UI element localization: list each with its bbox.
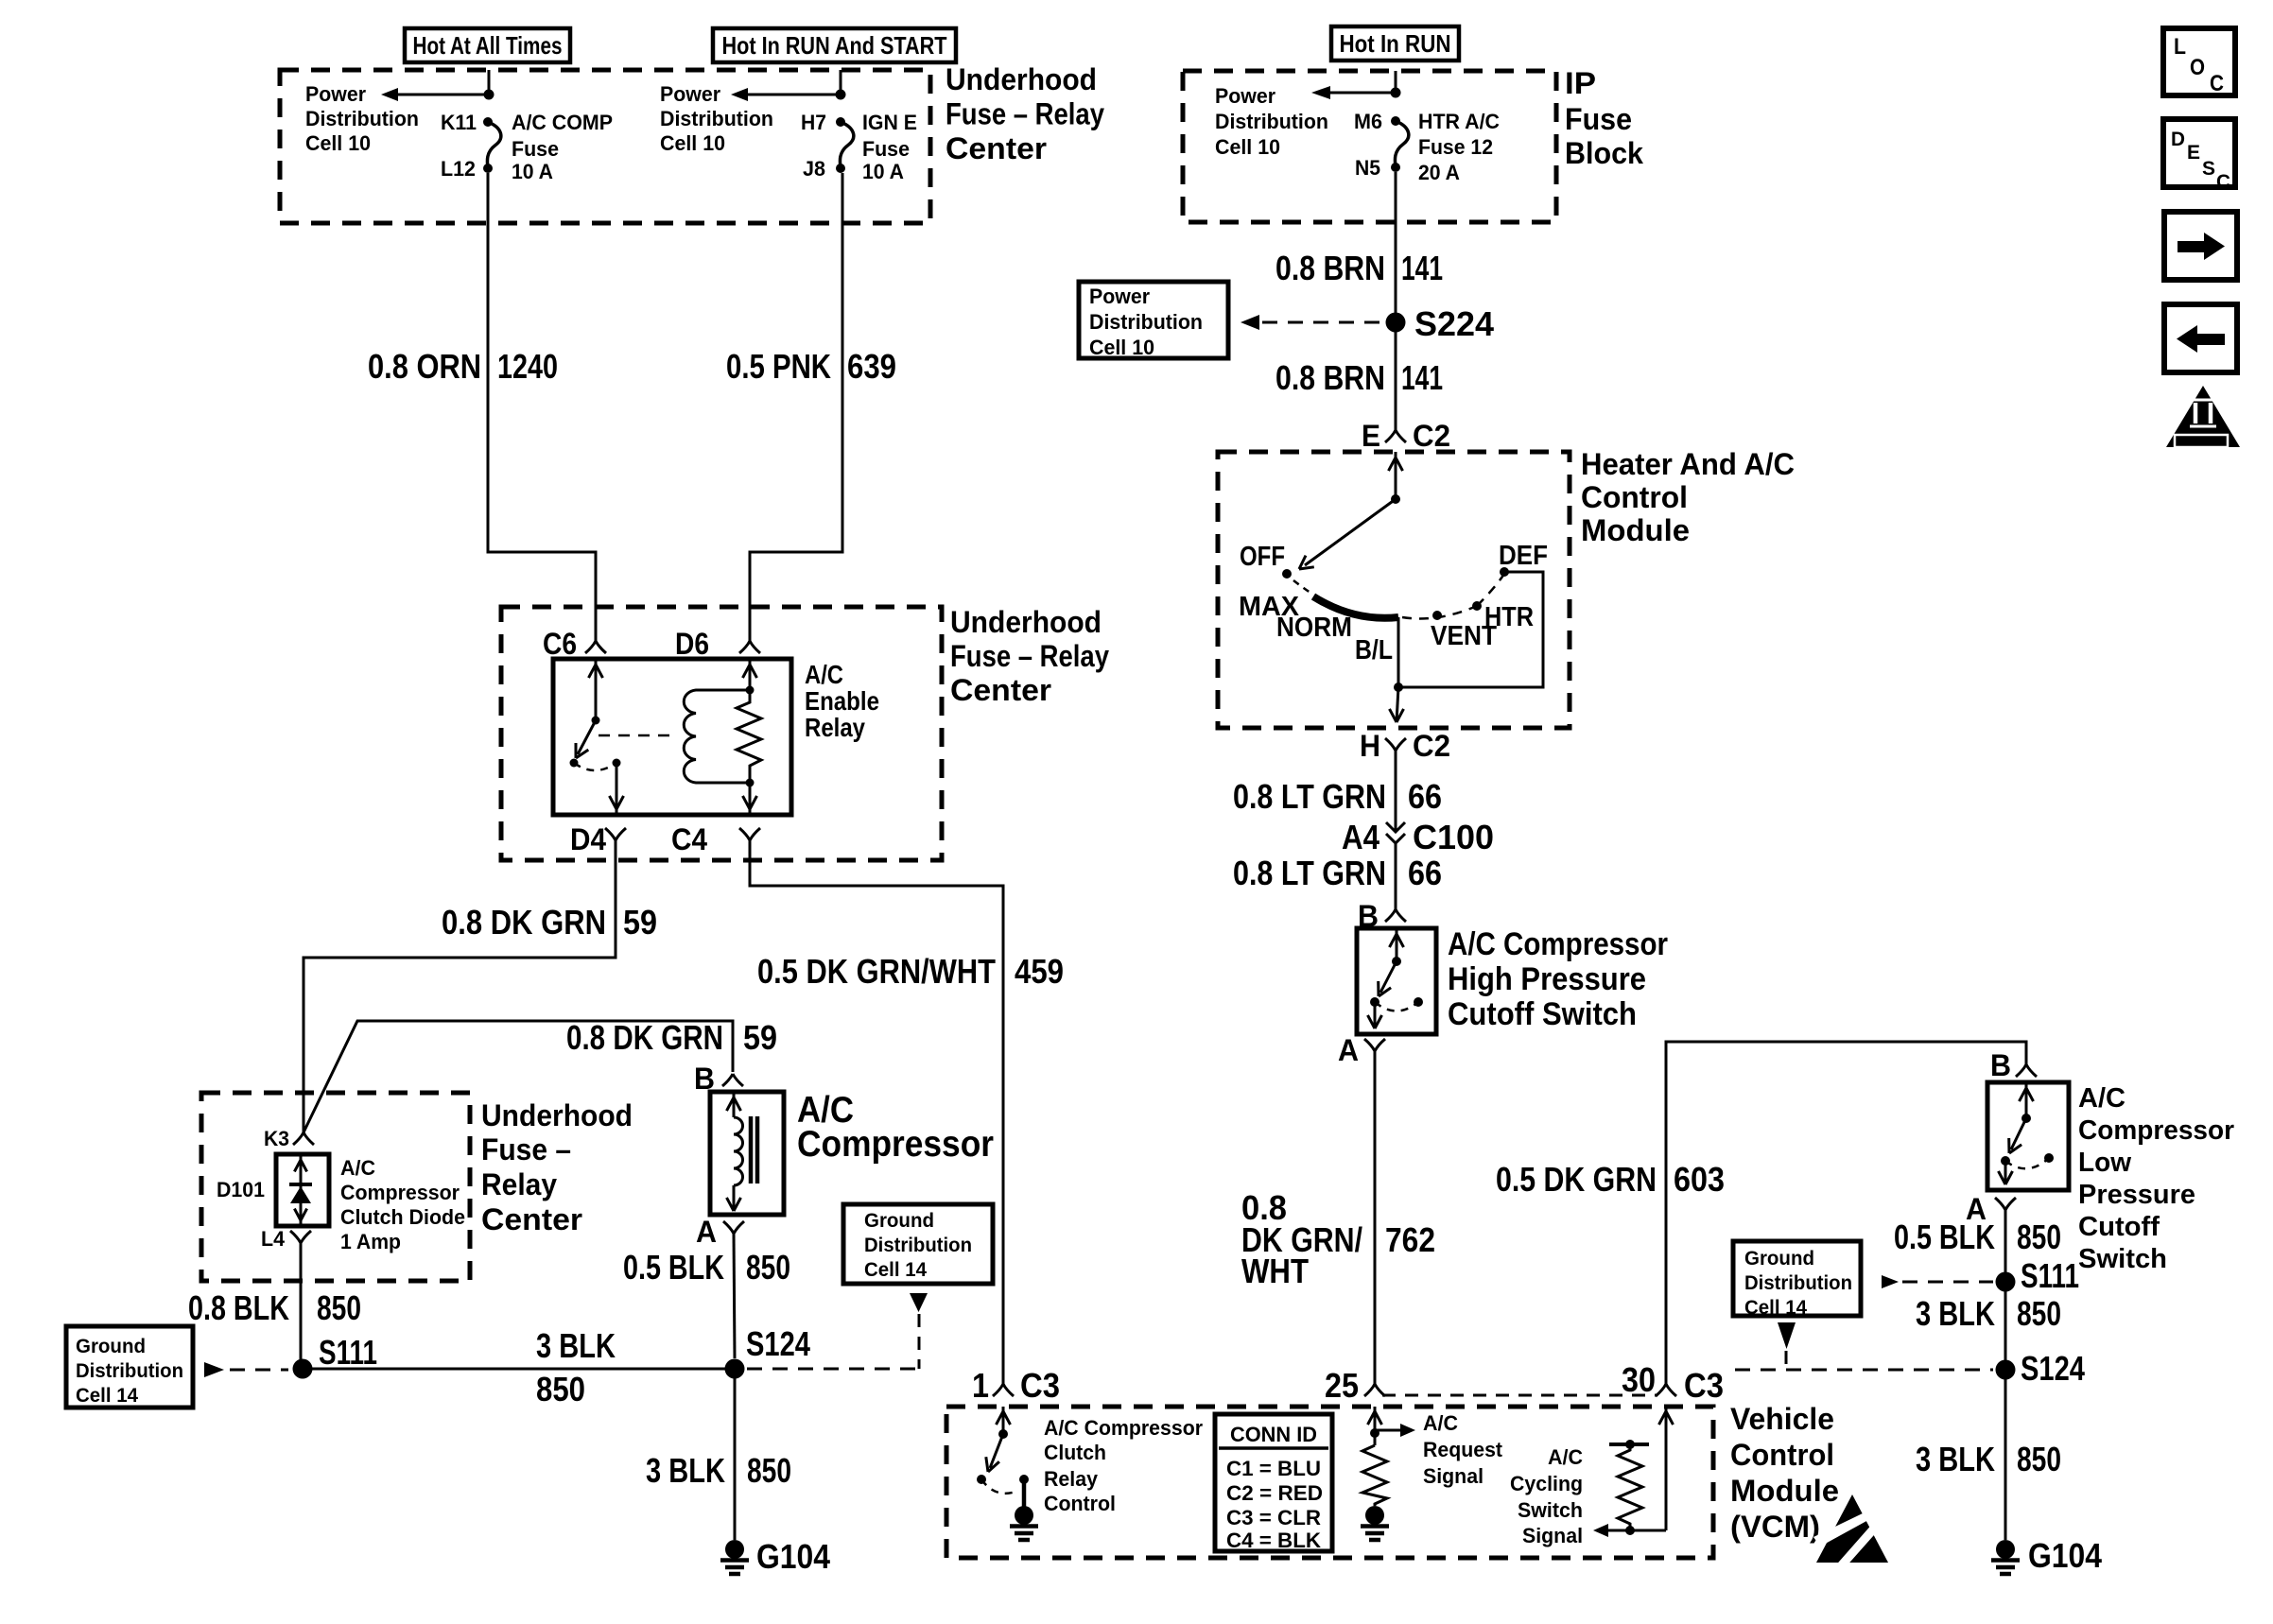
- wire label 0.5 PNK 639: [726, 347, 896, 386]
- connector pin L4: [290, 1231, 301, 1243]
- svg-text:C: C: [2210, 71, 2224, 96]
- svg-text:IGN E: IGN E: [862, 111, 917, 134]
- sidebar button back arrow: [2164, 304, 2237, 372]
- CONN ID table: [1215, 1414, 1332, 1551]
- wire 0.5 DK GRN 603 from VCM pin 30 to LP switch B: [1666, 1042, 2026, 1384]
- Underhood Fuse-Relay Center dashed box 1: [280, 70, 930, 223]
- IP Fuse Block dashed box: [1183, 71, 1556, 222]
- svg-text:Distribution: Distribution: [305, 107, 419, 130]
- svg-text:850: 850: [746, 1248, 790, 1287]
- wire 3 BLK 850 from S111 to S124: [303, 1368, 735, 1371]
- ground distribution dashed link to S124 right: [1735, 1351, 1993, 1370]
- svg-text:IP: IP: [1565, 66, 1596, 100]
- wire label 0.8 DK GRN 59 (upper): [442, 903, 657, 942]
- power distribution box solid (S224): [1079, 282, 1228, 358]
- diode D101 symbol: [289, 1154, 312, 1226]
- wire 0.5 BLK 850 LP switch A to S111 right: [2004, 1210, 2007, 1540]
- splice S124 right: [1996, 1360, 2016, 1380]
- svg-text:Compressor: Compressor: [2078, 1115, 2234, 1146]
- wire label 0.5 DK GRN 603: [1496, 1160, 1725, 1199]
- compressor clutch coil and symbol: [727, 1092, 758, 1211]
- svg-text:Fuse – Relay: Fuse – Relay: [946, 97, 1104, 131]
- svg-text:Cutoff Switch: Cutoff Switch: [1448, 996, 1637, 1032]
- VCM pin link dashed 25-30: [1382, 1394, 1657, 1397]
- svg-text:141: 141: [1401, 249, 1443, 287]
- svg-text:Distribution: Distribution: [660, 107, 773, 130]
- wire 0.8 BLK 850 from L4 to S111: [300, 1243, 303, 1361]
- svg-text:Hot In RUN: Hot In RUN: [1340, 29, 1451, 58]
- wire label 3 BLK 850 (to G104): [646, 1451, 791, 1490]
- svg-text:C4 = BLK: C4 = BLK: [1226, 1529, 1321, 1552]
- connector pin C6: [585, 641, 596, 653]
- ground distribution arrow down (right): [1778, 1322, 1796, 1349]
- svg-text:850: 850: [2017, 1440, 2061, 1478]
- svg-text:Pressure: Pressure: [2078, 1180, 2195, 1210]
- Underhood Fuse-Relay Center dashed box 3: [201, 1093, 470, 1281]
- label A/C Compressor Low Pressure Cutoff Switch: [2078, 1083, 2234, 1274]
- node junction on A/C COMP fuse feed: [484, 90, 495, 100]
- svg-text:Center: Center: [481, 1202, 582, 1236]
- svg-text:S224: S224: [1414, 304, 1494, 343]
- svg-text:59: 59: [623, 903, 657, 942]
- mode switch arm to OFF: [1299, 499, 1396, 569]
- svg-text:A: A: [696, 1215, 717, 1249]
- svg-text:Underhood: Underhood: [950, 605, 1102, 639]
- svg-text:Underhood: Underhood: [481, 1098, 633, 1132]
- connector pin D4: [605, 828, 616, 840]
- svg-text:Compressor: Compressor: [340, 1181, 460, 1204]
- power feed arrow to Power Distribution (right): [731, 88, 841, 101]
- svg-text:Fuse – Relay: Fuse – Relay: [950, 639, 1109, 673]
- svg-text:Switch: Switch: [2078, 1244, 2167, 1274]
- svg-text:Fuse: Fuse: [862, 137, 910, 161]
- svg-text:Distribution: Distribution: [864, 1235, 972, 1256]
- svg-text:Cell 14: Cell 14: [76, 1385, 138, 1407]
- wire 0.8 DK GRN 59 from D4 to diode K3: [304, 840, 616, 1132]
- power feed arrow to Power Distribution (IP): [1311, 86, 1396, 99]
- ground G104 (left): [725, 1540, 744, 1559]
- ground distribution dashed link to S124: [747, 1314, 919, 1369]
- svg-text:C2: C2: [1413, 419, 1450, 453]
- svg-text:A/C: A/C: [340, 1156, 375, 1180]
- svg-text:Cell 14: Cell 14: [864, 1259, 927, 1281]
- node mode position OFF: [1282, 569, 1292, 579]
- svg-text:C3: C3: [1020, 1366, 1060, 1405]
- svg-text:Relay: Relay: [1044, 1467, 1099, 1491]
- svg-text:Underhood: Underhood: [946, 62, 1097, 96]
- svg-text:3 BLK: 3 BLK: [646, 1451, 725, 1490]
- ground distribution box right Cell 14: [1733, 1241, 1861, 1316]
- svg-text:Signal: Signal: [1423, 1464, 1484, 1488]
- power label box Hot In RUN: [1331, 26, 1459, 60]
- wire label 0.8 ORN 1240: [368, 347, 558, 386]
- svg-text:0.8 DK GRN: 0.8 DK GRN: [566, 1018, 723, 1057]
- ground distribution dashed arrow to S111 right: [1882, 1275, 1993, 1288]
- svg-text:C3 = CLR: C3 = CLR: [1226, 1506, 1321, 1529]
- svg-text:Signal: Signal: [1522, 1524, 1583, 1547]
- svg-text:0.5 DK GRN/WHT: 0.5 DK GRN/WHT: [757, 952, 996, 991]
- svg-text:Control: Control: [1730, 1438, 1834, 1472]
- svg-text:M6: M6: [1354, 110, 1382, 133]
- svg-text:1240: 1240: [497, 347, 558, 386]
- svg-text:3 BLK: 3 BLK: [1916, 1294, 1995, 1333]
- label Power Distribution Cell 10 (IP): [1215, 84, 1328, 159]
- svg-text:S111: S111: [319, 1333, 377, 1372]
- svg-text:Request: Request: [1423, 1438, 1503, 1461]
- connector pin 1 C3: [993, 1384, 1003, 1396]
- svg-text:A/C Compressor: A/C Compressor: [1044, 1416, 1203, 1440]
- label A/C COMP Fuse 10 A: [512, 111, 613, 183]
- svg-text:1 Amp: 1 Amp: [340, 1230, 401, 1253]
- wire fuse3 feed stub: [1395, 71, 1397, 88]
- node mode position HTR: [1472, 601, 1482, 611]
- svg-text:OFF: OFF: [1240, 542, 1285, 572]
- wire 0.8 DK GRN/WHT 762 from HP switch A to VCM pin 25: [1374, 1051, 1377, 1384]
- HP switch internals: [1368, 928, 1424, 1028]
- svg-text:0.8 BRN: 0.8 BRN: [1275, 249, 1385, 287]
- fuse A/C COMP Fuse 10A (K11-L12): [483, 117, 501, 173]
- power feed arrow to Power Distribution (left): [381, 88, 489, 101]
- relay coil winding: [684, 690, 750, 783]
- diode D101 A/C Compressor Clutch Diode box: [276, 1154, 329, 1226]
- svg-text:Relay: Relay: [481, 1167, 557, 1201]
- relay K1 A/C Enable Relay box: [553, 659, 791, 815]
- svg-text:C6: C6: [543, 627, 577, 661]
- svg-text:A/C: A/C: [2078, 1083, 2126, 1114]
- wire 0.8 DK GRN 59 branch K3 to compressor B: [304, 1021, 733, 1132]
- Heater And A/C Control Module dashed box: [1218, 452, 1570, 728]
- node junction on HTR A/C fuse feed: [1391, 88, 1401, 98]
- svg-text:C4: C4: [671, 822, 707, 856]
- wire label 0.5 BLK 850 (right): [1894, 1218, 2061, 1256]
- svg-text:L12: L12: [441, 157, 476, 181]
- mode arc dashed OFF to MAX: [1293, 580, 1310, 593]
- svg-text:K11: K11: [441, 111, 477, 134]
- fuse HTR A/C Fuse 12 20A (M6-N5): [1391, 116, 1409, 172]
- label Underhood Fuse-Relay Center (diode): [481, 1098, 633, 1236]
- label Vehicle Control Module (VCM): [1730, 1402, 1839, 1544]
- A/C request signal sense: [1362, 1407, 1415, 1506]
- svg-text:L: L: [2174, 34, 2186, 60]
- label Heater And A/C Control Module: [1581, 447, 1795, 547]
- svg-text:CONN ID: CONN ID: [1230, 1423, 1317, 1446]
- node relay coil bottom junction: [746, 779, 755, 787]
- svg-text:NORM: NORM: [1276, 613, 1352, 643]
- ESD sensitive device symbol: [1813, 1494, 1888, 1569]
- wire label 0.8 BRN 141 (lower): [1275, 358, 1443, 397]
- wire 0.5 PNK 639 from fuse J8 to relay D6: [750, 173, 842, 641]
- svg-text:E: E: [2187, 142, 2200, 164]
- svg-text:Fuse –: Fuse –: [481, 1132, 571, 1166]
- relay output to D4: [610, 763, 624, 815]
- svg-text:H: H: [1360, 729, 1380, 763]
- svg-text:N5: N5: [1355, 156, 1380, 180]
- label A/C Compressor Clutch Diode 1 Amp: [340, 1156, 465, 1253]
- svg-text:Relay: Relay: [805, 713, 865, 742]
- sidebar button LOC: [2163, 28, 2235, 96]
- label IGN E Fuse 10 A: [862, 111, 917, 183]
- node mode position DEF: [1500, 567, 1509, 577]
- wire label 0.8 DK GRN 59 (lower): [566, 1018, 777, 1057]
- connector pin 30: [1656, 1384, 1666, 1396]
- wire label 0.8 LT GRN 66 (lower): [1233, 854, 1442, 892]
- svg-text:S124: S124: [2021, 1349, 2085, 1388]
- node module output junction: [1394, 682, 1403, 692]
- clutch relay control driver switch: [977, 1407, 1029, 1507]
- svg-text:Low: Low: [2078, 1148, 2131, 1178]
- label Power Distribution Cell 10 (S224): [1089, 285, 1203, 359]
- node junction on IGN E fuse feed: [836, 90, 846, 100]
- svg-text:A/C: A/C: [1423, 1411, 1458, 1435]
- dashed arrow S224 to Power Distribution: [1241, 315, 1382, 330]
- svg-text:850: 850: [2017, 1218, 2061, 1256]
- svg-text:Clutch: Clutch: [1044, 1441, 1106, 1464]
- svg-text:0.8 LT GRN: 0.8 LT GRN: [1233, 777, 1386, 816]
- wire 0.5 BLK 850 compressor A to S124: [734, 1234, 735, 1358]
- svg-text:0.5 PNK: 0.5 PNK: [726, 347, 831, 386]
- svg-text:HTR: HTR: [1484, 602, 1534, 632]
- splice S111 right: [1996, 1272, 2016, 1292]
- svg-text:Cycling: Cycling: [1510, 1472, 1583, 1495]
- mode thick contact arc MAX to B/L: [1313, 596, 1398, 618]
- svg-text:S: S: [2202, 158, 2215, 180]
- svg-text:Distribution: Distribution: [76, 1360, 183, 1382]
- svg-text:Hot At All Times: Hot At All Times: [413, 31, 563, 60]
- ground symbol A/C request: [1365, 1506, 1384, 1525]
- wire label 0.5 DK GRN/WHT 459: [757, 952, 1064, 991]
- svg-text:A/C Compressor: A/C Compressor: [1448, 926, 1668, 962]
- wire DEF loop to output: [1398, 572, 1543, 687]
- svg-text:Module: Module: [1581, 513, 1690, 547]
- connector pin H C2: [1385, 738, 1396, 751]
- A/C Compressor Low Pressure Cutoff Switch box: [1987, 1082, 2069, 1190]
- wire label 0.8 BRN 141 (upper): [1275, 249, 1443, 287]
- node relay switch pivot: [592, 717, 600, 725]
- svg-text:Control: Control: [1581, 480, 1688, 514]
- svg-text:Heater And A/C: Heater And A/C: [1581, 447, 1795, 481]
- CONN ID rows: [1226, 1457, 1323, 1552]
- svg-text:E: E: [1362, 419, 1380, 453]
- svg-text:639: 639: [847, 347, 896, 386]
- wire label 0.8 LT GRN 66 (upper): [1233, 777, 1442, 816]
- svg-text:Distribution: Distribution: [1215, 110, 1328, 133]
- node relay contact left: [570, 759, 579, 768]
- label A/C Compressor Clutch Relay Control: [1044, 1416, 1203, 1515]
- relay coil feed from D6: [743, 659, 757, 690]
- A/C Compressor box: [710, 1092, 784, 1215]
- svg-text:Ground: Ground: [864, 1210, 934, 1232]
- sidebar button DESC: [2163, 119, 2235, 193]
- svg-text:Center: Center: [946, 131, 1047, 165]
- node mode position VENT: [1432, 611, 1442, 620]
- svg-text:Ground: Ground: [1744, 1248, 1814, 1270]
- wire 0.8 BRN 141 from N5 to heater module E: [1395, 172, 1397, 430]
- cycling switch signal input from pin 30: [1659, 1407, 1674, 1530]
- svg-text:Power: Power: [305, 82, 366, 106]
- relay contact dashed arc: [574, 763, 616, 770]
- ground distribution box middle Cell 14: [843, 1204, 993, 1284]
- relay switch common from C6: [589, 659, 603, 720]
- label Power Distribution Cell 10 (right): [660, 82, 773, 155]
- svg-text:Cutoff: Cutoff: [2078, 1212, 2160, 1242]
- svg-text:L4: L4: [261, 1227, 286, 1251]
- sidebar button next arrow: [2164, 212, 2237, 280]
- svg-text:10 A: 10 A: [862, 160, 904, 183]
- svg-text:Ground: Ground: [76, 1336, 146, 1357]
- svg-text:C100: C100: [1413, 818, 1494, 856]
- wire label 3 BLK 850 (right lower): [1916, 1440, 2061, 1478]
- svg-text:Block: Block: [1565, 136, 1643, 170]
- svg-text:Fuse: Fuse: [1565, 102, 1632, 136]
- wire label 0.8 BLK 850: [188, 1288, 361, 1327]
- module output to H: [1390, 687, 1404, 722]
- wire label 0.8 DK GRN/WHT 762: [1241, 1188, 1435, 1290]
- svg-text:850: 850: [2017, 1294, 2061, 1333]
- svg-text:Power: Power: [660, 82, 720, 106]
- label A/C Request Signal: [1423, 1411, 1503, 1488]
- node relay contact right: [613, 759, 621, 768]
- svg-text:0.5 DK GRN: 0.5 DK GRN: [1496, 1160, 1657, 1199]
- splice S111: [293, 1359, 313, 1379]
- svg-text:141: 141: [1401, 358, 1443, 397]
- svg-text:25: 25: [1325, 1366, 1359, 1405]
- Underhood Fuse-Relay Center dashed box 2: [501, 607, 942, 860]
- svg-text:Module: Module: [1730, 1474, 1839, 1508]
- svg-text:20 A: 20 A: [1418, 161, 1460, 184]
- svg-text:D4: D4: [570, 822, 606, 856]
- mode switch feed from E: [1389, 452, 1403, 499]
- svg-text:Compressor: Compressor: [797, 1124, 994, 1165]
- wire 3 BLK 850 from S124 to G104: [734, 1369, 737, 1540]
- svg-text:603: 603: [1674, 1160, 1725, 1199]
- power label box Hot At All Times: [405, 28, 570, 62]
- svg-text:D101: D101: [217, 1178, 265, 1201]
- svg-text:Distribution: Distribution: [1744, 1272, 1852, 1294]
- connector pin B of LP switch: [2016, 1064, 2026, 1077]
- svg-text:WHT: WHT: [1241, 1252, 1309, 1290]
- svg-text:DEF: DEF: [1499, 541, 1548, 571]
- svg-text:(VCM): (VCM): [1730, 1510, 1820, 1544]
- A/C cycling switch sense resistor: [1593, 1440, 1666, 1537]
- svg-text:G104: G104: [2028, 1536, 2102, 1575]
- mode arc dashed HTR to DEF: [1477, 574, 1504, 606]
- svg-text:66: 66: [1408, 777, 1442, 816]
- svg-text:S111: S111: [2021, 1256, 2079, 1295]
- svg-text:0.8 LT GRN: 0.8 LT GRN: [1233, 854, 1386, 892]
- svg-text:D6: D6: [675, 627, 709, 661]
- svg-text:0.5 BLK: 0.5 BLK: [623, 1248, 724, 1287]
- ground G104 (right): [1996, 1540, 2015, 1559]
- connector pin A of HP switch: [1364, 1039, 1375, 1051]
- svg-text:D: D: [2171, 129, 2185, 150]
- wire fuse2 feed stub: [840, 70, 842, 90]
- svg-text:C1 = BLU: C1 = BLU: [1226, 1457, 1321, 1480]
- svg-text:HTR A/C: HTR A/C: [1418, 110, 1500, 133]
- node relay coil top junction: [746, 686, 755, 695]
- ground distribution arrow down (middle): [910, 1293, 928, 1312]
- connector C100 inline (A4): [1386, 822, 1405, 843]
- svg-text:B/L: B/L: [1355, 635, 1393, 665]
- wire 0.8 ORN 1240 from fuse L12 to relay C6: [488, 173, 596, 641]
- svg-text:Vehicle: Vehicle: [1730, 1402, 1834, 1436]
- svg-text:C2: C2: [1413, 729, 1450, 763]
- svg-text:C2 = RED: C2 = RED: [1226, 1481, 1323, 1505]
- svg-text:Hot In RUN And START: Hot In RUN And START: [722, 31, 947, 60]
- svg-text:0.5 BLK: 0.5 BLK: [1894, 1218, 1995, 1256]
- relay switch movable arm: [576, 720, 596, 758]
- svg-text:Cell 10: Cell 10: [1215, 135, 1280, 159]
- svg-text:3 BLK: 3 BLK: [536, 1326, 616, 1365]
- svg-text:850: 850: [747, 1451, 791, 1490]
- connector pin B of HP switch: [1385, 909, 1396, 922]
- splice S124: [725, 1359, 745, 1379]
- wire label 3 BLK 850 (horizontal): [536, 1326, 616, 1408]
- svg-text:H7: H7: [801, 111, 826, 134]
- svg-text:A4: A4: [1342, 818, 1379, 856]
- svg-text:Cell 10: Cell 10: [660, 131, 725, 155]
- svg-text:0.8 BRN: 0.8 BRN: [1275, 358, 1385, 397]
- svg-text:Cell 14: Cell 14: [1744, 1297, 1807, 1319]
- svg-text:B: B: [1990, 1048, 2011, 1082]
- label Ground Distribution Cell 14 (left): [76, 1336, 183, 1407]
- svg-text:Enable: Enable: [805, 686, 879, 716]
- power label box Hot In RUN And START: [713, 28, 956, 62]
- wire 0.8 LT GRN 66 from H to C100: [1395, 751, 1397, 832]
- svg-text:K3: K3: [264, 1127, 289, 1150]
- label Ground Distribution Cell 14 (middle): [864, 1210, 972, 1281]
- svg-text:Cell 10: Cell 10: [1089, 336, 1154, 359]
- LP switch internals: [1999, 1082, 2055, 1184]
- connector pin D6: [739, 641, 750, 653]
- relay coil suppression resistor: [737, 690, 761, 783]
- mode arc dashed B/L to HTR: [1402, 606, 1477, 619]
- label A/C Compressor: [797, 1090, 994, 1165]
- label A/C Compressor High Pressure Cutoff Switch: [1448, 926, 1668, 1032]
- node mode switch pivot: [1391, 494, 1400, 504]
- svg-text:O: O: [2190, 55, 2205, 80]
- connector pin A of LP switch: [1995, 1198, 2005, 1210]
- svg-text:0.8 DK GRN: 0.8 DK GRN: [442, 903, 606, 942]
- wire 0.5 DK GRN/WHT 459 from C4 to VCM pin 1: [750, 840, 1003, 1384]
- svg-text:0.8 BLK: 0.8 BLK: [188, 1288, 289, 1327]
- svg-text:850: 850: [317, 1288, 361, 1327]
- label Underhood Fuse-Relay Center (relay): [950, 605, 1109, 707]
- label IP Fuse Block: [1565, 66, 1643, 170]
- svg-text:66: 66: [1408, 854, 1442, 892]
- Vehicle Control Module dashed box: [946, 1407, 1713, 1558]
- connector pin C4: [739, 828, 750, 840]
- relay coil link dashed: [599, 734, 677, 737]
- wire fuse1 feed stub: [488, 70, 491, 90]
- fuse IGN E Fuse 10A (H7-J8): [836, 117, 854, 173]
- svg-text:G104: G104: [756, 1537, 830, 1576]
- connector pin B of compressor: [722, 1074, 733, 1086]
- svg-text:Distribution: Distribution: [1089, 310, 1203, 334]
- svg-text:3 BLK: 3 BLK: [1916, 1440, 1995, 1478]
- svg-text:High Pressure: High Pressure: [1448, 961, 1646, 997]
- svg-text:Power: Power: [1089, 285, 1150, 308]
- wire label 3 BLK 850 (right upper): [1916, 1294, 2061, 1333]
- svg-text:Center: Center: [950, 673, 1051, 707]
- svg-text:C: C: [2216, 171, 2230, 193]
- svg-text:Power: Power: [1215, 84, 1275, 108]
- svg-text:OBD II: OBD II: [2182, 435, 2222, 448]
- svg-text:59: 59: [743, 1018, 777, 1057]
- connector pin E C2: [1385, 430, 1396, 442]
- connector pin 25: [1364, 1384, 1375, 1396]
- ground distribution dashed arrow to S111: [204, 1362, 288, 1377]
- svg-text:C3: C3: [1684, 1366, 1724, 1405]
